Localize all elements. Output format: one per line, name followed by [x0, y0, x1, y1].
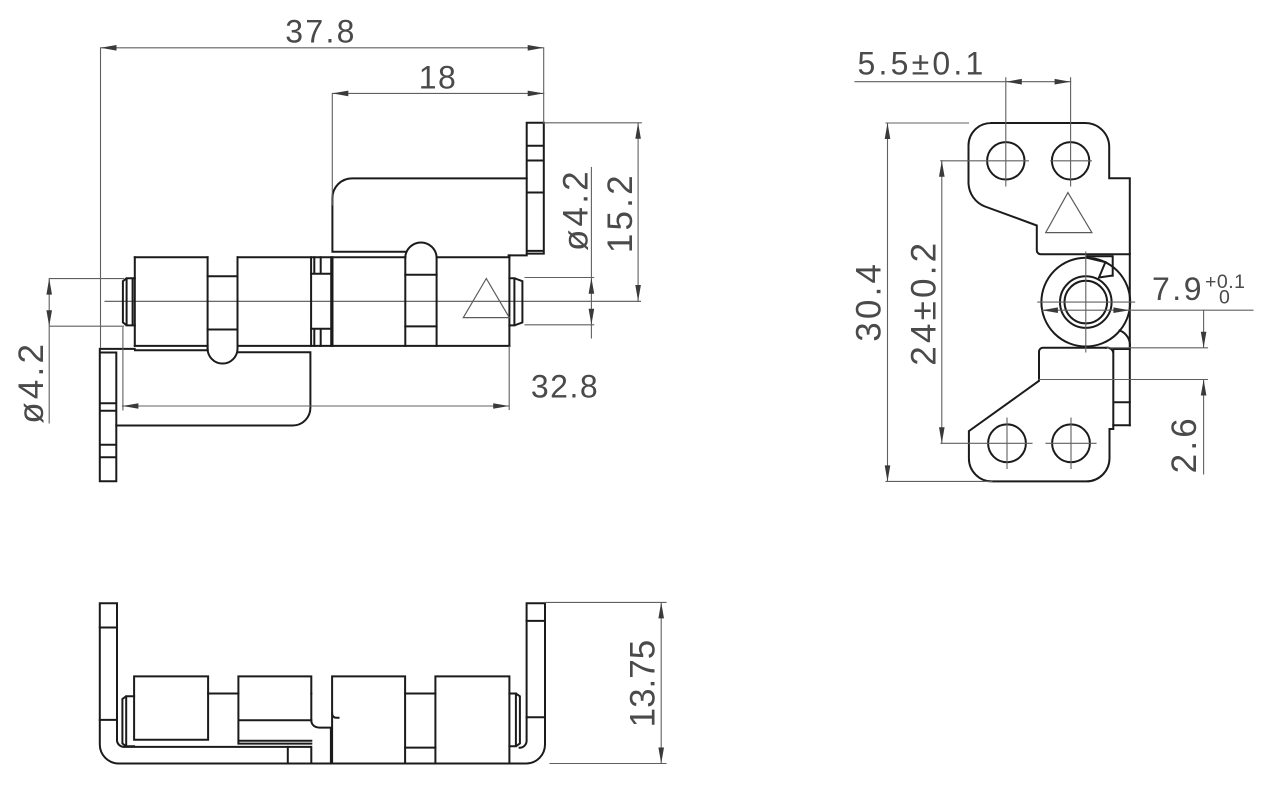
dim 37.8 arrows — [101, 45, 117, 51]
dim 7.9-to-shoulder line — [1107, 310, 1208, 348]
knuckle side edges — [135, 255, 510, 348]
dim 2.6 arrow — [1201, 380, 1207, 396]
centerline of hinge pin — [105, 300, 641, 302]
washer stack between knuckles 2-3 — [311, 257, 332, 346]
hole cross marks — [941, 78, 1096, 469]
washer transition (bottom view) — [311, 694, 338, 764]
dim 7.9 lines — [1042, 309, 1253, 311]
knuckle top edges — [135, 256, 510, 258]
right bent tab — [1106, 348, 1130, 426]
dim dia 4.2 right lines — [525, 167, 594, 338]
dim 15.2 arrows — [635, 123, 641, 139]
lower hole left — [988, 424, 1026, 462]
plate top outline — [969, 123, 1130, 254]
pin neck 3-4 (bottom view) — [405, 694, 435, 748]
lower section outline — [969, 348, 1113, 482]
knuckle block 4 — [435, 676, 509, 763]
pin hole outer — [1060, 276, 1112, 328]
svg-text:32.8: 32.8 — [531, 368, 599, 404]
boss slot detail — [1087, 256, 1113, 277]
base plate edges — [288, 747, 312, 764]
upper hole left — [987, 142, 1024, 179]
pin right end (bottom view) — [509, 694, 520, 747]
dim 32.8 lines — [122, 328, 509, 411]
pin right end cap — [509, 278, 522, 325]
svg-text:13.75: 13.75 — [624, 640, 663, 728]
dim 32.8 arrows — [122, 403, 138, 409]
svg-text:30.4: 30.4 — [850, 261, 889, 342]
pin neck between knuckles 1-2 — [208, 276, 238, 329]
pin left end cap — [123, 278, 135, 325]
dim 5.5 lines — [855, 81, 1071, 83]
top leaf arm — [332, 178, 526, 255]
dim 24 lines — [941, 161, 943, 444]
dim 15.2 lines — [544, 123, 642, 301]
knuckle block 2 — [238, 676, 311, 743]
dim 18 lines — [332, 93, 543, 205]
curled knuckle end (arch) above pin — [405, 242, 436, 326]
bottom leaf flange plate (edge-on) — [100, 349, 135, 481]
inspection triangle mark — [1046, 193, 1092, 233]
dim 18 arrows — [332, 91, 348, 97]
dim 30.4 lines — [886, 123, 992, 481]
inspection triangle mark on knuckle 4 — [463, 279, 509, 318]
svg-text:ø4.2: ø4.2 — [12, 341, 51, 424]
right edge below step — [1129, 254, 1131, 425]
dim dia 4.2 left arrows — [46, 279, 52, 295]
channel outline — [100, 603, 545, 763]
dim 5.5 arrows — [1006, 79, 1022, 85]
dim 13.75 arrows — [658, 602, 664, 618]
svg-text:18: 18 — [419, 60, 458, 96]
lower hole right — [1052, 424, 1090, 462]
svg-text:37.8: 37.8 — [285, 14, 356, 50]
dim 13.75 lines — [545, 602, 666, 763]
dim 2.6 lines — [1039, 380, 1208, 475]
dim dia 4.2 left lines — [49, 279, 123, 423]
channel tab divisions — [100, 621, 545, 720]
knuckle block 1 — [134, 676, 208, 739]
svg-text:15.2: 15.2 — [601, 172, 640, 253]
pin neck 1-2 (bottom view) — [208, 693, 238, 695]
bottom leaf arm — [116, 350, 310, 425]
top leaf flange plate (edge-on) — [527, 123, 544, 254]
knuckle bottom edges — [135, 345, 510, 347]
dim 37.8 lines — [101, 48, 544, 348]
curled knuckle end (U) below pin — [208, 349, 238, 364]
svg-text:24±0.2: 24±0.2 — [905, 240, 944, 366]
dim dia 4.2 right arrows — [589, 278, 595, 294]
knuckle block 3 — [332, 676, 405, 763]
boss outer circle — [1041, 258, 1130, 347]
dim 7.9 arrows — [1042, 307, 1058, 313]
svg-text:0: 0 — [1219, 286, 1230, 308]
boss centerlines — [1038, 252, 1135, 352]
svg-text:7.9: 7.9 — [1152, 271, 1204, 307]
dim 30.4 arrows — [885, 123, 891, 139]
svg-text:2.6: 2.6 — [1165, 415, 1204, 473]
upper hole right — [1052, 142, 1089, 179]
svg-text:ø4.2: ø4.2 — [557, 168, 596, 251]
pin left end (bottom view) — [122, 696, 134, 746]
dim 24 arrows — [939, 161, 945, 177]
boss fillet to right edge — [1120, 330, 1130, 347]
svg-text:5.5±0.1: 5.5±0.1 — [858, 45, 987, 81]
pin hole inner — [1065, 281, 1108, 324]
